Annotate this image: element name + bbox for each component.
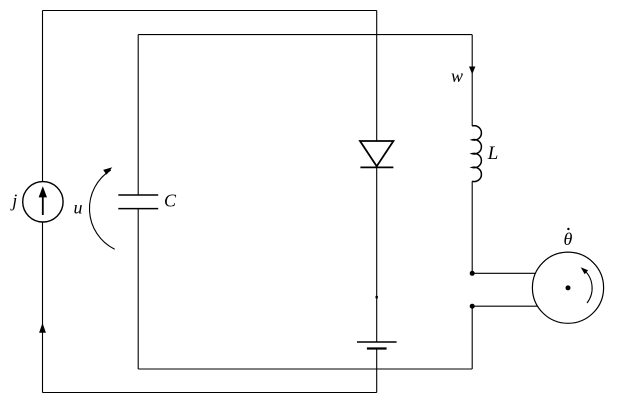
motor M (532, 252, 603, 323)
wire inner left lower (137, 209, 139, 369)
inductor L (472, 126, 481, 182)
label theta-dot (564, 228, 573, 249)
svg-text:L: L (487, 143, 499, 164)
wire outer top (43, 10, 377, 12)
svg-text:θ: θ (564, 229, 573, 249)
svg-text:j: j (10, 191, 17, 211)
svg-text:u: u (74, 197, 83, 217)
wire outer bottom (43, 392, 377, 394)
wire diode to battery (376, 167, 378, 342)
diode D (360, 141, 393, 167)
wire battery to outer bottom (376, 349, 378, 393)
capacitor C (118, 195, 158, 209)
battery E (357, 342, 397, 349)
node A (470, 271, 475, 276)
current arrow on outer left wire (39, 323, 46, 333)
wire motor to node B (472, 305, 538, 307)
voltage arrow u (89, 167, 114, 249)
wire node A to motor (472, 272, 535, 274)
wire inner top (138, 34, 472, 36)
current arrow w (469, 67, 475, 75)
wire inner bottom (138, 368, 472, 370)
tick on diode branch wire (376, 296, 378, 299)
svg-text:w: w (451, 66, 463, 86)
wire outer left lower (42, 222, 44, 393)
wire inner left upper (137, 35, 139, 195)
wire inductor branch upper (471, 35, 473, 126)
wire inductor to node A (471, 181, 473, 273)
wire node B to inner bottom (471, 306, 473, 369)
svg-text:C: C (164, 191, 177, 211)
current source J (23, 182, 63, 222)
wire outer left upper (42, 11, 44, 182)
wire diode branch upper (376, 11, 378, 142)
node B (470, 304, 475, 309)
